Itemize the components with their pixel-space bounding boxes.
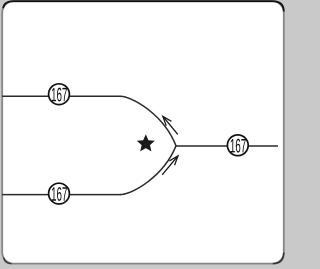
star marker [137, 134, 155, 151]
arrow: upper (pointing up-left along upper curve) [163, 116, 178, 134]
arrow: lower (pointing up-right toward junction) [162, 156, 178, 175]
wire: right horizontal line from junction [176, 145, 278, 147]
route badge 167 right [227, 135, 248, 156]
wire: bottom-left horizontal line [2, 194, 121, 196]
route badge 167 bottom-left [49, 183, 70, 204]
card top edge dark [3, 1, 284, 11]
route badge 167 top-left [49, 84, 70, 105]
wire: lower curve into junction [120, 146, 176, 195]
card bottom-right corner dark arc [273, 253, 284, 264]
wire: upper curve into junction [120, 96, 176, 146]
card bottom-left corner dark arc [4, 258, 12, 264]
wire: top-left horizontal line [2, 95, 121, 97]
